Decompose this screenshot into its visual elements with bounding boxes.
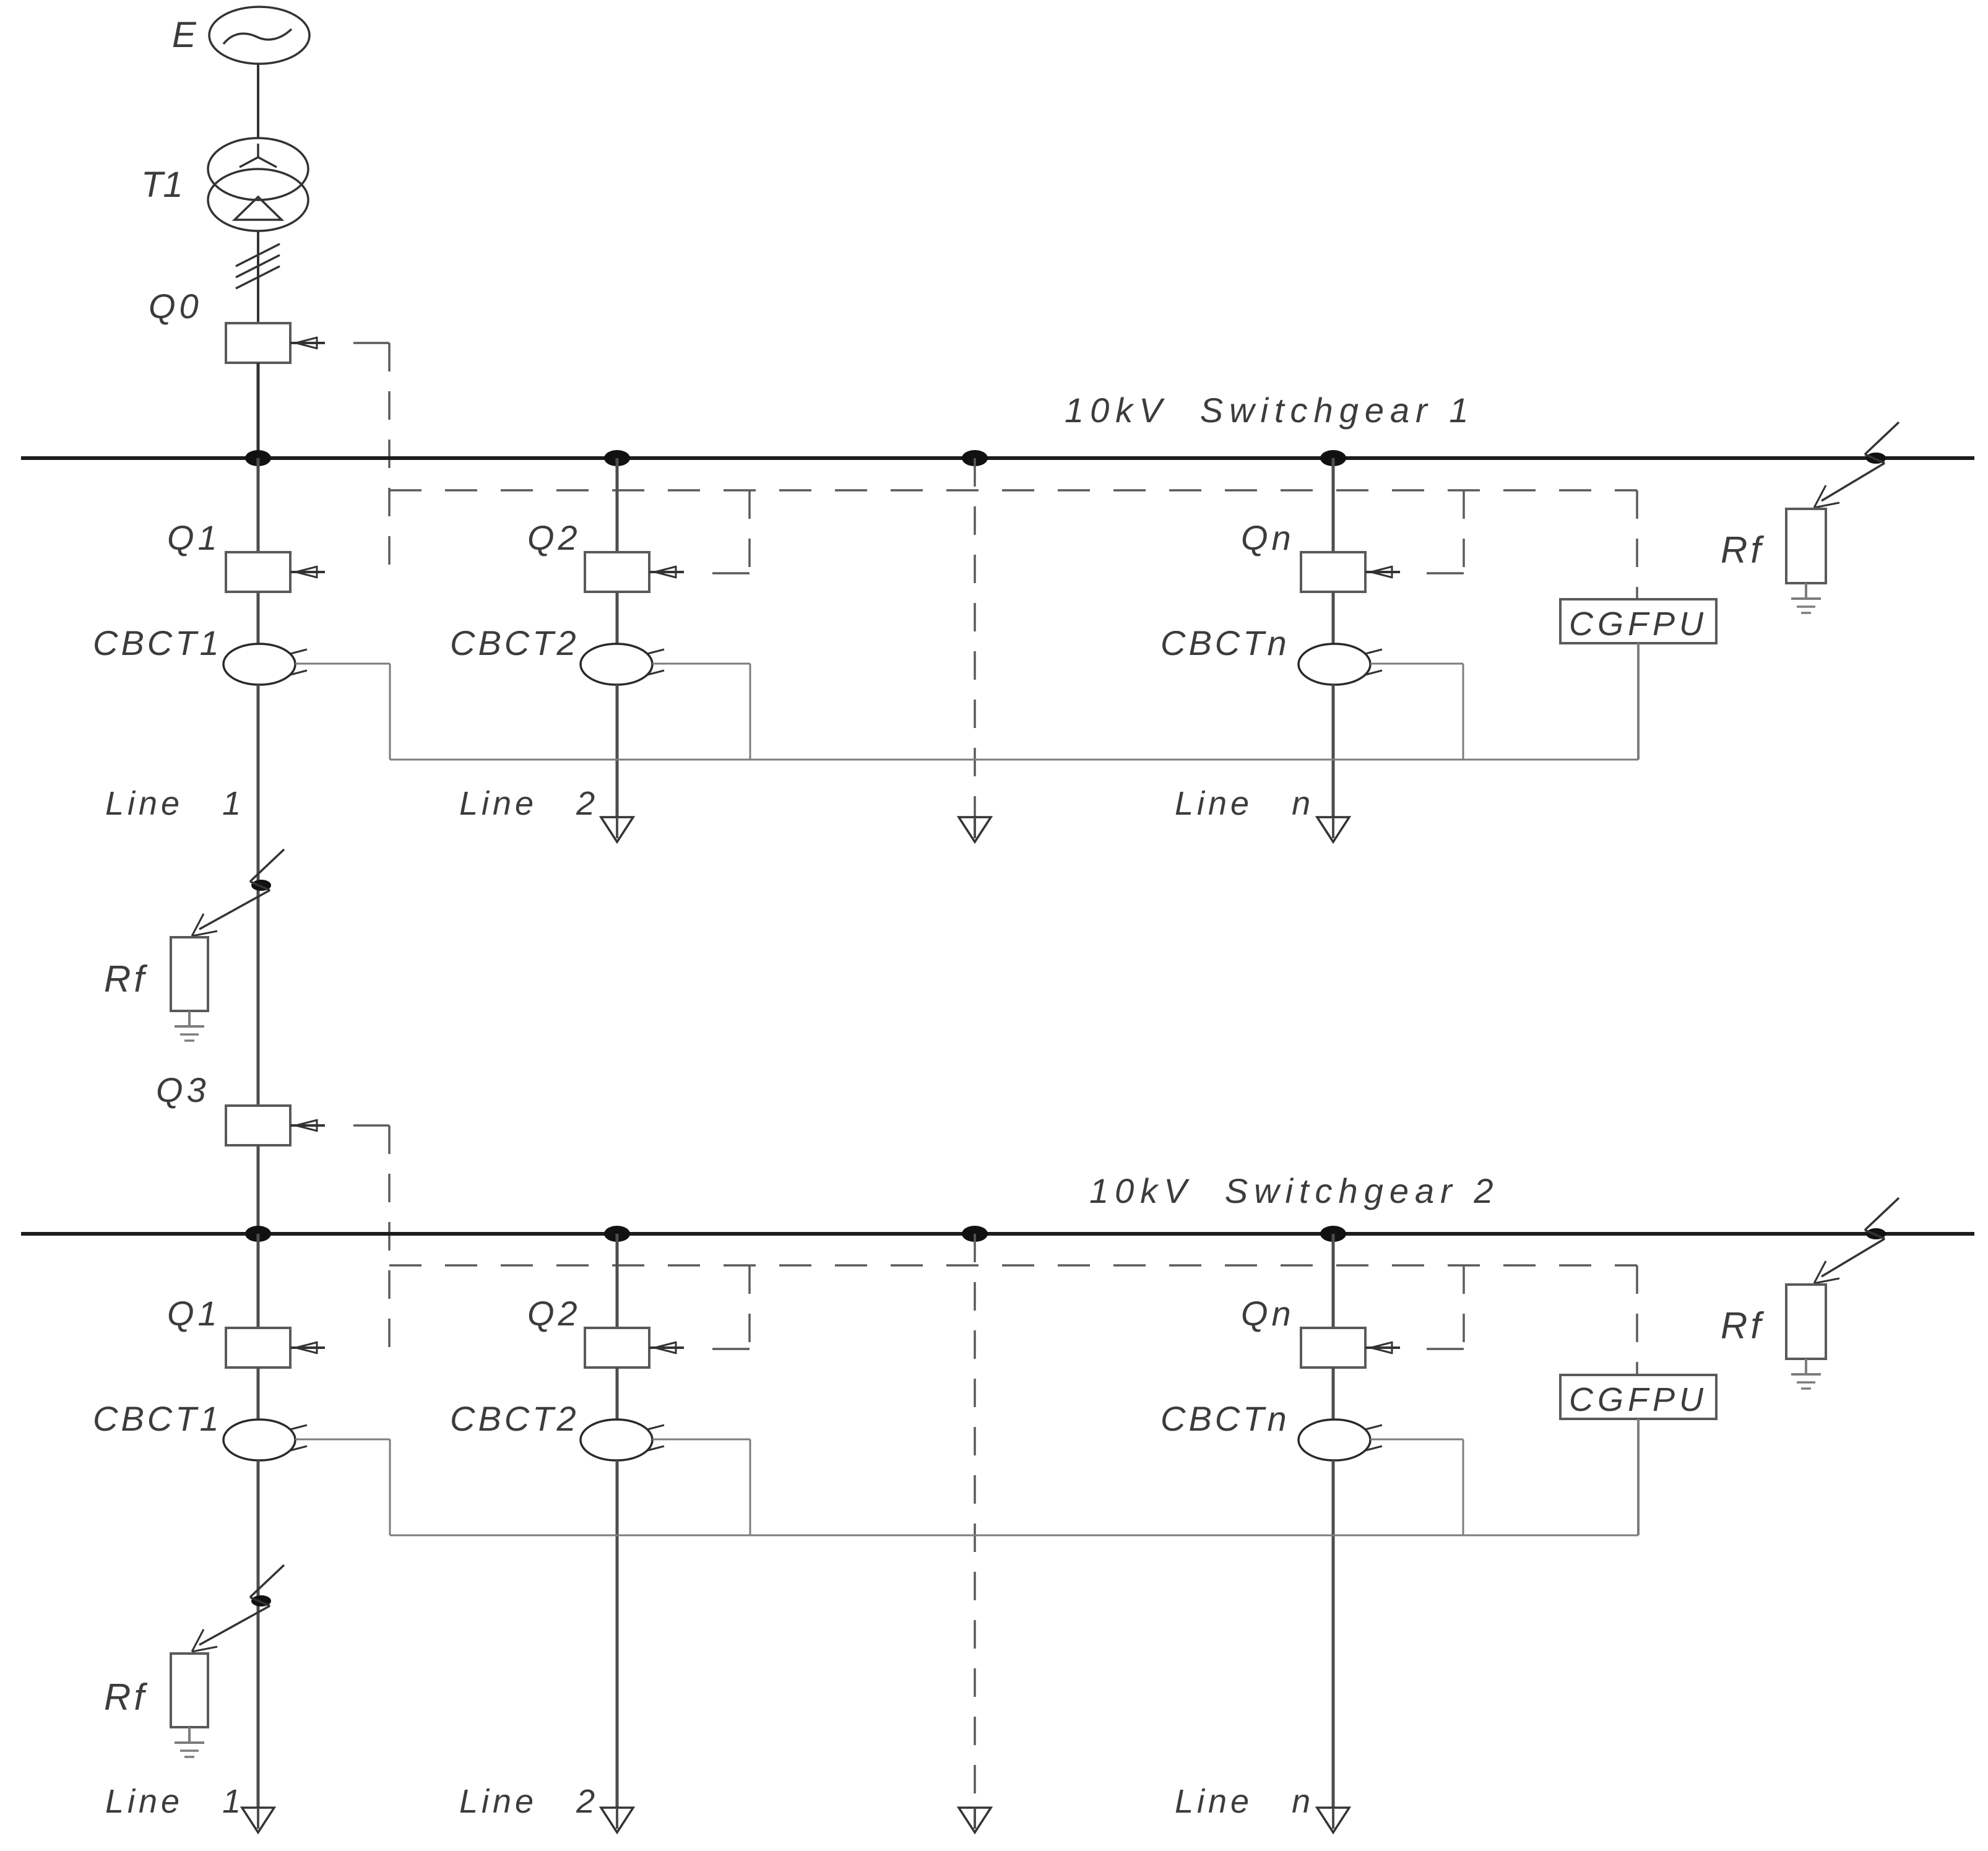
- breaker Qn label: [1241, 518, 1295, 557]
- trip dashed riser Q2: [748, 490, 751, 573]
- Line n arrow (sec.2): [1317, 1808, 1349, 1832]
- svg-text:Rf: Rf: [104, 958, 147, 1000]
- CBCT1 secondary wire: [295, 664, 390, 760]
- source E: [209, 7, 309, 64]
- CBCT1 label (sec.2): [93, 1399, 222, 1438]
- svg-text:T1: T1: [141, 165, 183, 205]
- trip dashed riser Q2b: [748, 1265, 751, 1349]
- three-phase marks: [236, 244, 280, 288]
- wire E to T1: [257, 64, 259, 139]
- wire Q2b to CBCT2b: [616, 1368, 619, 1420]
- svg-text:CGFPU: CGFPU: [1569, 1381, 1708, 1418]
- svg-text:Q1: Q1: [167, 518, 221, 557]
- resistor Rf + ground (line1 mid): [171, 937, 208, 1041]
- fault on busbar 1: [1814, 422, 1899, 508]
- wire CBCTn to Line n arrow: [1332, 685, 1335, 817]
- resistor Rf (busbar1) label: [1721, 529, 1764, 571]
- Line 2 label (sec.2): [459, 1783, 599, 1820]
- trip jog Q3: [353, 1124, 389, 1127]
- wire busbar2 to Q1b: [257, 1234, 260, 1328]
- svg-text:Q3: Q3: [156, 1070, 210, 1109]
- node busbar1-linen: [1320, 450, 1346, 466]
- node busbar2-line3: [962, 1226, 988, 1242]
- svg-text:Line n: Line n: [1175, 785, 1314, 822]
- CT secondary bus 1: [390, 759, 1638, 761]
- Line n label (sec.2): [1175, 1783, 1314, 1820]
- wire Q0 to busbar 1: [257, 363, 260, 458]
- busbar 2 label: [1089, 1171, 1499, 1210]
- breaker Qn (sec.2): [1301, 1328, 1400, 1368]
- CBCT1: [223, 644, 307, 685]
- trip dashed riser Q0/Q1: [388, 343, 391, 573]
- breaker Q1 (sec.2): [226, 1328, 325, 1368]
- CBCTn (sec.2): [1299, 1420, 1382, 1460]
- wire CBCT2 to Line 2 arrow: [616, 685, 619, 817]
- svg-text:Line 1: Line 1: [105, 1783, 244, 1820]
- breaker Q2: [585, 552, 684, 592]
- breaker Qn: [1301, 552, 1400, 592]
- breaker Q2 label (sec.2): [527, 1294, 581, 1333]
- resistor Rf + ground (busbar1): [1786, 509, 1826, 613]
- trip jog Qn: [1427, 572, 1464, 574]
- dashed feeder (sec.2): [974, 1234, 976, 1808]
- svg-text:Q2: Q2: [527, 518, 581, 557]
- breaker Q2 label: [527, 518, 581, 557]
- busbar 1: [21, 456, 1974, 460]
- dashed feeder arrow (sec.2): [959, 1808, 991, 1832]
- svg-text:CBCT2: CBCT2: [450, 623, 579, 662]
- trip jog Q2: [712, 572, 750, 574]
- resistor Rf (busbar2) label: [1721, 1305, 1764, 1346]
- CBCT1 (sec.2): [223, 1420, 307, 1460]
- node busbar2-line2: [604, 1226, 630, 1242]
- CBCTnb secondary wire: [1370, 1439, 1463, 1535]
- transformer T1 label: [141, 165, 183, 205]
- wire Q3 to busbar 2: [257, 1145, 260, 1234]
- svg-text:Qn: Qn: [1241, 518, 1295, 557]
- svg-text:Rf: Rf: [1721, 529, 1764, 571]
- svg-text:Q0: Q0: [149, 287, 202, 326]
- trip dashed drop CGFPU 2: [1636, 1265, 1638, 1375]
- wire Qn to CBCTn: [1332, 592, 1335, 644]
- trip jog Q0: [353, 342, 389, 344]
- Line n label (sec.1): [1175, 785, 1314, 822]
- fault on Line 1 (sec.2): [192, 1565, 284, 1652]
- Line 2 arrow (sec.2): [601, 1808, 633, 1832]
- Line n arrow (sec.1): [1317, 817, 1349, 842]
- fault on busbar 2: [1814, 1198, 1899, 1283]
- wire Q2 to CBCT2: [616, 592, 619, 644]
- CBCTn label: [1160, 623, 1290, 662]
- CT secondary bus 2: [390, 1535, 1638, 1537]
- wire CBCT1 to Q3 (Line 1): [257, 685, 260, 1106]
- trip dashed riser Qnb: [1463, 1265, 1465, 1349]
- svg-text:CBCT1: CBCT1: [93, 623, 222, 662]
- dashed feeder arrow (sec.1): [959, 817, 991, 842]
- svg-text:Line 2: Line 2: [459, 785, 599, 822]
- node busbar2-linen: [1320, 1226, 1346, 1242]
- breaker Q2 (sec.2): [585, 1328, 684, 1368]
- wire CBCT1b to Line 1 arrow: [257, 1460, 260, 1808]
- svg-text:Line 1: Line 1: [105, 785, 244, 822]
- trip jog Qnb: [1427, 1348, 1464, 1350]
- CGFPU 1 wire: [1637, 643, 1640, 760]
- busbar 1 label: [1065, 391, 1474, 430]
- node busbar2-line1: [245, 1226, 271, 1242]
- CGFPU unit 1: [1560, 599, 1716, 643]
- svg-text:E: E: [172, 15, 197, 55]
- wire busbar1 to Q1: [257, 458, 260, 552]
- breaker Q0 label: [149, 287, 202, 326]
- CBCTn secondary wire: [1370, 664, 1463, 760]
- svg-text:Rf: Rf: [104, 1676, 147, 1718]
- breaker Q1 label: [167, 518, 221, 557]
- svg-text:Q1: Q1: [167, 1294, 221, 1333]
- CBCTn label (sec.2): [1160, 1399, 1290, 1438]
- breaker Q3 label: [156, 1070, 210, 1109]
- Line 2 arrow (sec.1): [601, 817, 633, 842]
- CBCT2b secondary wire: [652, 1439, 750, 1535]
- CBCTn: [1299, 644, 1382, 685]
- trip dashed riser Qn: [1463, 490, 1465, 573]
- svg-text:10kV Switchgear 1: 10kV Switchgear 1: [1065, 391, 1474, 430]
- svg-text:CBCTn: CBCTn: [1160, 1399, 1290, 1438]
- Line 1 label (sec.2): [105, 1783, 244, 1820]
- breaker Q1: [226, 552, 325, 592]
- svg-text:Line n: Line n: [1175, 1783, 1314, 1820]
- wire busbar1 to Qn: [1332, 458, 1335, 552]
- Line 2 label (sec.1): [459, 785, 599, 822]
- svg-text:Line 2: Line 2: [459, 1783, 599, 1820]
- CGFPU 2 wire: [1637, 1419, 1640, 1535]
- CBCT2 label (sec.2): [450, 1399, 579, 1438]
- svg-text:CBCTn: CBCTn: [1160, 623, 1290, 662]
- node busbar1-line3: [962, 450, 988, 466]
- node busbar1-line1: [245, 450, 271, 466]
- trip jog Q2b: [712, 1348, 750, 1350]
- svg-text:CBCT2: CBCT2: [450, 1399, 579, 1438]
- breaker Qn label (sec.2): [1241, 1294, 1295, 1333]
- CBCT2 secondary wire: [652, 664, 750, 760]
- resistor Rf + ground (line1 bottom): [171, 1654, 208, 1757]
- resistor Rf (line1 mid) label: [104, 958, 147, 1000]
- svg-text:Q2: Q2: [527, 1294, 581, 1333]
- svg-text:Rf: Rf: [1721, 1305, 1764, 1346]
- dashed feeder (sec.1): [974, 458, 976, 817]
- transformer T1: [208, 138, 308, 231]
- fault on Line 1: [192, 849, 284, 936]
- CBCT2 (sec.2): [581, 1420, 664, 1460]
- wire CBCTnb to Line n arrow: [1332, 1460, 1335, 1808]
- source E label: [172, 15, 197, 55]
- resistor Rf (line1 bottom) label: [104, 1676, 147, 1718]
- node busbar1-line2: [604, 450, 630, 466]
- breaker Q1 label (sec.2): [167, 1294, 221, 1333]
- wire Q1 to CBCT1: [257, 592, 260, 644]
- wire busbar2 to Q2b: [616, 1234, 619, 1328]
- wire Qnb to CBCTnb: [1332, 1368, 1335, 1420]
- Line 1 label (sec.1): [105, 785, 244, 822]
- trip bus 1 (dashed): [389, 489, 1637, 492]
- svg-text:10kV Switchgear 2: 10kV Switchgear 2: [1089, 1171, 1499, 1210]
- CBCT2 label: [450, 623, 579, 662]
- wire busbar2 to Qnb: [1332, 1234, 1335, 1328]
- CBCT2: [581, 644, 664, 685]
- wire CBCT2b to Line 2 arrow: [616, 1460, 619, 1808]
- breaker Q3: [226, 1106, 325, 1145]
- CBCT1 label: [93, 623, 222, 662]
- wire Q1b to CBCT1b: [257, 1368, 260, 1420]
- resistor Rf + ground (busbar2): [1786, 1285, 1826, 1389]
- trip dashed riser Q3/Q1b: [388, 1125, 391, 1349]
- trip bus 2 (dashed): [389, 1264, 1637, 1267]
- CBCT1b secondary wire: [295, 1439, 390, 1535]
- svg-text:CBCT1: CBCT1: [93, 1399, 222, 1438]
- svg-text:CGFPU: CGFPU: [1569, 605, 1708, 643]
- trip dashed drop CGFPU 1: [1636, 490, 1638, 599]
- wire T1 to Q0: [257, 231, 259, 323]
- CGFPU unit 2: [1560, 1375, 1716, 1419]
- Line 1 arrow (sec.2): [242, 1808, 274, 1832]
- wire busbar1 to Q2: [616, 458, 619, 552]
- breaker Q0: [226, 323, 325, 363]
- busbar 2: [21, 1232, 1974, 1236]
- svg-text:Qn: Qn: [1241, 1294, 1295, 1333]
